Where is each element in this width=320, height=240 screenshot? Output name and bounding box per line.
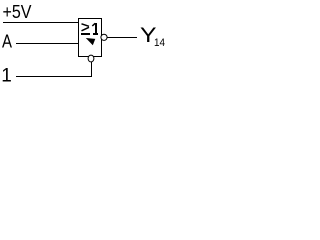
gate U1 function label: greater-equal glyph top slant [82,24,90,27]
wire input 1 horizontal [16,76,92,77]
greater-equal glyph underline [81,33,90,35]
digit 1 flag of "&ge;1" [92,23,95,26]
wire input A [16,43,78,44]
output inversion bubble [101,34,107,40]
digit 1 stem of "&ge;1" [95,23,97,35]
svg-text:+5V: +5V [3,2,32,22]
open-collector triangle symbol [86,38,96,45]
svg-text:A: A [2,32,12,52]
wire output [107,37,137,38]
gate U1 body [79,19,102,57]
greater-equal glyph bottom slant [82,27,90,31]
bottom input inversion bubble [88,55,94,62]
wire +5V rail to gate [3,22,78,23]
svg-text:1: 1 [1,66,12,87]
digit 1 base bar of "&ge;1" [93,33,98,35]
wire input 1 vertical riser [91,62,92,76]
svg-text:14: 14 [154,37,165,49]
